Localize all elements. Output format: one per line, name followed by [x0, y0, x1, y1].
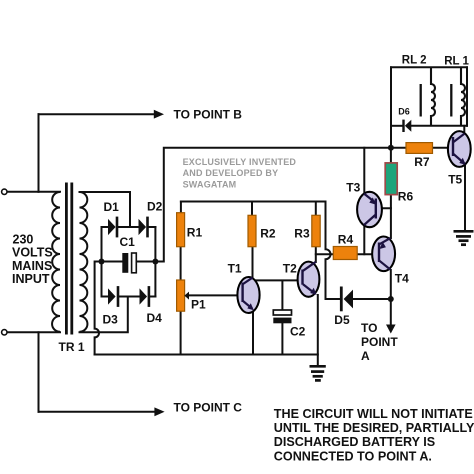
potentiometer P1 body [177, 280, 185, 311]
wire: relay box bottom rail left of D6 [391, 125, 402, 127]
wire: T1 collector node to T2 base [254, 279, 303, 281]
svg-text:UNTIL THE DESIRED, PARTIALLY: UNTIL THE DESIRED, PARTIALLY [274, 421, 474, 435]
wire: relay box top rail [391, 66, 467, 68]
wire: mains top terminal lead [7, 191, 60, 193]
diode D4 [140, 286, 151, 307]
capacitor C2 (bottom plate solid) [273, 318, 291, 324]
arrowhead: TO POINT C [154, 407, 164, 416]
resistor R3 [312, 215, 320, 246]
svg-text:R1: R1 [187, 225, 203, 239]
relay RL2 coil core bar [420, 84, 422, 117]
svg-text:TO: TO [361, 321, 377, 335]
ground symbol (main) [310, 366, 326, 380]
diode D5 [340, 287, 353, 312]
svg-text:T5: T5 [448, 172, 462, 186]
transformer TR1 primary winding [52, 192, 60, 332]
wire: secondary bottom to bridge D3-D4 midpoint [80, 297, 128, 333]
svg-text:SWAGATAM: SWAGATAM [183, 180, 237, 190]
svg-text:D3: D3 [103, 312, 119, 326]
terminal: mains input top [2, 189, 7, 194]
wire: T5 collector stub [463, 126, 465, 134]
diode D2 [139, 217, 149, 238]
svg-text:RL 2: RL 2 [402, 55, 427, 67]
svg-text:CONNECTED TO POINT A.: CONNECTED TO POINT A. [274, 449, 432, 463]
svg-text:R6: R6 [398, 189, 414, 203]
wire: T5 emitter to ground [464, 164, 466, 231]
wire: C2 top lead [281, 281, 283, 311]
svg-text:A: A [361, 349, 370, 363]
wire: T4 collector to point A junction [390, 270, 392, 299]
svg-text:D5: D5 [334, 313, 350, 327]
diode D6 [402, 120, 411, 132]
arrowhead: TO POINT A (down) [386, 325, 396, 334]
wire: T3 emitter to supply line [363, 148, 365, 194]
wire: TO POINT B horizontal arrow line [39, 113, 157, 115]
resistor R1 [177, 213, 185, 247]
svg-text:D2: D2 [147, 200, 163, 214]
transformer TR1 secondary winding [80, 192, 88, 332]
svg-text:DISCHARGED BATTERY IS: DISCHARGED BATTERY IS [274, 435, 435, 449]
transistor T4 (PNP) [372, 237, 395, 272]
wire: T3 base to R6 bottom node [376, 207, 391, 209]
wire: R2 top stub [251, 202, 253, 216]
relay RL1 coil core bar [450, 84, 452, 117]
svg-text:R2: R2 [260, 226, 276, 240]
wire: secondary top to bridge D1-D2 midpoint [80, 192, 131, 227]
wire: R2 bottom to T1 collector [252, 247, 254, 279]
wire: amplifier top rail [181, 201, 326, 203]
wire: P1 bottom to ground rail [180, 311, 182, 354]
svg-text:INPUT: INPUT [12, 272, 50, 286]
junction node: supply / R6 / R7 / relay [388, 145, 394, 151]
wire: relay box bottom rail right of D6 [412, 125, 468, 127]
svg-text:230: 230 [13, 233, 34, 247]
wire: T1 emitter to ground rail [252, 310, 254, 355]
wire: R3 top stub [315, 202, 317, 216]
capacitor C1 (left plate solid) [122, 253, 128, 273]
svg-text:EXCLUSIVELY INVENTED: EXCLUSIVELY INVENTED [183, 157, 297, 167]
wire: R4 right to T4 base [357, 253, 379, 255]
wire: R7 left lead [391, 147, 406, 149]
svg-text:C2: C2 [290, 324, 306, 338]
transistor T2 (NPN) [298, 262, 320, 297]
diode D1 [108, 217, 118, 238]
wire: TO POINT C horizontal arrow line [39, 411, 157, 413]
wire: rail right end down with hop to D5 cathode [326, 202, 341, 300]
wire: relay box right vertical [466, 67, 468, 126]
wire: T3 collector down to R4/T4 base wire [363, 225, 365, 254]
wire: R6 top stub from supply junction [390, 148, 392, 163]
capacitor C1 (right plate hollow) [132, 253, 137, 273]
wire: bridge positive output up and right supply line [155, 148, 391, 262]
terminal: mains input bottom [2, 330, 7, 335]
svg-text:POINT: POINT [361, 335, 398, 349]
wire: relay box left vertical [390, 67, 392, 148]
svg-text:T3: T3 [346, 180, 360, 194]
wire: D5 anode lead to junction [353, 298, 391, 300]
svg-text:TR 1: TR 1 [59, 340, 85, 354]
svg-text:D4: D4 [147, 311, 163, 325]
svg-text:R7: R7 [414, 155, 430, 169]
svg-text:C1: C1 [120, 235, 136, 249]
svg-text:D1: D1 [104, 200, 120, 214]
potentiometer P1 wiper arrow [184, 292, 189, 300]
wire: R6 bottom to T4 emitter [390, 195, 392, 238]
diode D3 [108, 286, 119, 307]
wire: mains bottom terminal lead [7, 331, 60, 333]
wire: ground bottom rail [95, 354, 318, 356]
relay RL2 coil [431, 67, 435, 126]
svg-text:R3: R3 [294, 226, 310, 240]
svg-text:T1: T1 [228, 261, 242, 275]
wire: bridge right vertical [154, 227, 156, 297]
svg-text:TO POINT C: TO POINT C [174, 401, 243, 415]
svg-text:P1: P1 [191, 297, 206, 311]
svg-text:MAINS: MAINS [12, 259, 52, 273]
resistor R4 [333, 247, 357, 260]
transistor T5 (NPN) [448, 131, 471, 167]
wire: C2 bottom lead [281, 323, 283, 354]
wire: TO POINT B branch vertical [38, 114, 40, 192]
wire: bridge negative output with hop over coil wire [95, 262, 102, 355]
wire: bridge top rail (D1 D2 row) [102, 226, 109, 228]
svg-text:R4: R4 [338, 232, 354, 246]
svg-text:RL 1: RL 1 [444, 56, 469, 68]
wire: R7 right lead to T5 base [433, 147, 454, 149]
wire: bridge bottom rail (D3 D4 row) [102, 296, 109, 298]
ground symbol (T5 emitter) [454, 231, 474, 244]
wire: T2 emitter to ground [317, 295, 319, 366]
svg-text:THE CIRCUIT WILL NOT INITIATE: THE CIRCUIT WILL NOT INITIATE [274, 407, 473, 421]
junction node: bridge left [99, 259, 105, 265]
arrowhead: TO POINT B [154, 110, 164, 119]
wire: P1 wiper to T1 base [189, 294, 243, 296]
svg-text:VOLTS: VOLTS [12, 246, 53, 260]
wire: R1 top stub [180, 202, 182, 213]
transistor T3 (PNP, mirrored) [357, 192, 382, 227]
junction node: bridge right [152, 259, 158, 265]
svg-text:TO POINT B: TO POINT B [174, 107, 243, 121]
junction node: point A / T4 collector / D5 [388, 296, 394, 302]
wire: R3 bottom / T2 collector vertical [315, 247, 317, 262]
svg-text:T2: T2 [283, 262, 297, 276]
wire: POINT A arrow stem [390, 299, 392, 326]
resistor R6 (green) [385, 163, 397, 195]
capacitor C2 (top plate hollow) [273, 310, 291, 315]
resistor R2 [248, 215, 256, 246]
relay RL1 coil [461, 67, 465, 126]
svg-text:D6: D6 [398, 106, 410, 116]
wire: TO POINT C branch vertical [38, 332, 40, 412]
transistor T1 (NPN) [237, 277, 259, 313]
wire: bridge left vertical [101, 227, 103, 297]
svg-text:AND DEVELOPED BY: AND DEVELOPED BY [183, 168, 279, 178]
wire: T2 collector node to R4 left [316, 253, 334, 255]
resistor R7 [406, 143, 433, 154]
transformer TR1 core [65, 183, 68, 335]
svg-text:T4: T4 [395, 271, 409, 285]
wire: bridge middle rail (C1 row) [102, 261, 123, 263]
wire: R1 to P1 [180, 247, 182, 280]
